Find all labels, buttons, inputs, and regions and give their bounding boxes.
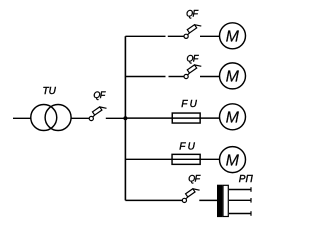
transformer TU (two-winding) [31,105,71,131]
svg-text:QF: QF [93,90,105,100]
wire: panel outgoing feeder 1 [229,189,251,191]
wire: panel outgoing feeder 3 [229,213,251,215]
fuse FU2 [172,154,200,164]
circuit breaker QF (incomer) [89,107,106,121]
wire: lead into breaker QF1 [168,35,184,37]
busbar [124,36,126,200]
wire: busbar to breaker QF3 (branch 5) [125,199,182,201]
wire: breaker QF3 to distribution panel [199,199,217,201]
svg-text:FU: FU [179,141,197,152]
wire: breaker QF2 to motor M2 [200,76,220,78]
fuse FU1 [172,113,200,123]
svg-text:QF: QF [187,53,199,63]
svg-text:TU: TU [43,86,57,97]
wire: panel outgoing feeder 2 [229,199,251,201]
wire: busbar to breaker QF1 (branch 1) [125,35,165,37]
svg-text:РП: РП [239,174,254,185]
terminal tick: feeder 3 [250,211,252,216]
wire: busbar through fuse FU2 to motor M4 (branch 4) [125,158,219,160]
wire: busbar through fuse FU1 to motor M3 (branch 3) [125,117,219,119]
distribution panel РП: filled bar [217,185,222,217]
motor M4 [220,147,246,173]
motor M3 [220,104,246,130]
svg-text:FU: FU [181,99,199,110]
svg-text:QF: QF [188,174,200,184]
circuit breaker QF3 (branch 5) [182,189,199,203]
circuit breaker QF2 (branch 2) [184,65,201,79]
node: feeder junction on busbar [123,116,127,120]
circuit breaker QF1 (branch 1) [184,25,201,39]
wire: incomer breaker QF to busbar [106,117,126,119]
distribution panel РП: outline section [223,185,228,216]
wire: busbar to breaker QF2 (branch 2) [125,76,165,78]
motor M1 [220,23,246,49]
wire: supply lead into transformer [13,117,31,119]
motor M2 [220,63,246,89]
wire: lead into breaker QF2 [169,76,185,78]
terminal tick: feeder 2 [250,198,252,203]
wire: breaker QF1 to motor M1 [200,35,220,37]
terminal tick: feeder 1 [250,187,252,192]
svg-text:QF: QF [186,8,198,18]
wire: transformer TU to incomer breaker QF [71,117,89,119]
